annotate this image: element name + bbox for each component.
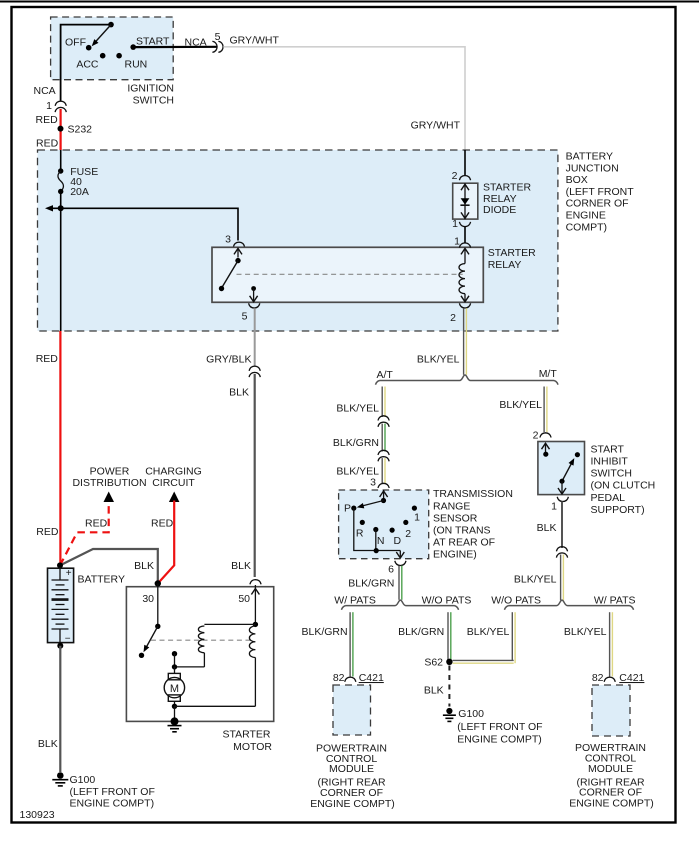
svg-text:BLK/YEL: BLK/YEL [514, 574, 557, 586]
pin 2 (relay) [459, 303, 470, 308]
node fuse output [58, 205, 64, 211]
svg-text:A/T: A/T [377, 369, 394, 381]
wire BLK/YEL from relay pin 2 [463, 308, 465, 375]
svg-text:3: 3 [370, 477, 376, 489]
ignition switch arm [94, 25, 112, 44]
svg-text:GRY/WHT: GRY/WHT [230, 34, 280, 46]
contact R [360, 520, 365, 525]
svg-text:CIRCUIT: CIRCUIT [152, 477, 195, 489]
svg-text:RED: RED [36, 114, 59, 126]
starter motor box [126, 587, 273, 722]
node motor top [172, 664, 177, 669]
svg-text:S62: S62 [424, 657, 443, 669]
pin 1 (diode) [459, 222, 470, 227]
motor case ground [171, 717, 179, 725]
split W/O PATS - W/ PATS [505, 600, 634, 610]
svg-text:POWER: POWER [90, 465, 130, 477]
svg-text:2: 2 [533, 430, 539, 442]
svg-text:MOTOR: MOTOR [233, 741, 272, 753]
svg-text:TRANSMISSION: TRANSMISSION [433, 488, 513, 500]
svg-text:(LEFT FRONT OF: (LEFT FRONT OF [457, 721, 542, 733]
node battery - [57, 643, 63, 649]
node motor bottom [172, 704, 177, 709]
svg-text:20A: 20A [70, 186, 89, 198]
node terminal 30 [155, 580, 161, 586]
svg-text:+: + [66, 568, 72, 579]
wire RED to S232 [59, 109, 61, 150]
svg-text:1: 1 [551, 501, 557, 513]
wire diode to relay [464, 227, 466, 243]
relay coil [464, 248, 466, 263]
starter relay diode [453, 183, 478, 219]
svg-text:BLK: BLK [134, 560, 154, 572]
svg-text:GRY/WHT: GRY/WHT [411, 119, 461, 131]
ground G100 (battery) [57, 772, 64, 779]
svg-text:1: 1 [454, 235, 460, 247]
battery junction box [38, 150, 558, 331]
wire BLK battery to starter motor [60, 549, 158, 584]
svg-text:RED: RED [85, 518, 108, 530]
svg-text:RELAY: RELAY [483, 193, 517, 205]
sensor wiper [383, 490, 385, 500]
svg-text:CORNER OF: CORNER OF [566, 198, 629, 210]
svg-text:ENGINE COMPT): ENGINE COMPT) [457, 733, 542, 745]
wire START to connector [133, 46, 217, 48]
connector 1 (inline, vertical) [55, 101, 66, 106]
svg-text:82: 82 [592, 672, 604, 684]
stub contact [172, 651, 177, 656]
svg-text:ENGINE COMPT): ENGINE COMPT) [310, 798, 395, 810]
svg-text:CHARGING: CHARGING [145, 465, 202, 477]
pin 6 (sensor) [395, 561, 406, 566]
svg-text:S232: S232 [68, 123, 93, 135]
svg-text:D: D [394, 535, 402, 547]
ignition switch box [51, 17, 174, 80]
svg-text:AT REAR OF: AT REAR OF [433, 537, 495, 549]
terminal 50 cap [250, 580, 261, 585]
svg-text:BLK: BLK [424, 685, 444, 697]
start inhibit switch box [538, 442, 585, 495]
svg-text:2: 2 [452, 170, 458, 182]
svg-text:1: 1 [414, 512, 420, 524]
svg-text:BLK/GRN: BLK/GRN [333, 437, 379, 449]
svg-text:OFF: OFF [65, 37, 86, 49]
svg-text:W/ PATS: W/ PATS [334, 594, 376, 606]
motor internal dashed link [151, 639, 253, 641]
relay output stub pin 5 [251, 286, 256, 291]
contact OFF [86, 45, 92, 51]
svg-text:BLK/GRN: BLK/GRN [301, 626, 347, 638]
svg-text:DIODE: DIODE [483, 204, 516, 216]
svg-text:BLK/GRN: BLK/GRN [398, 626, 444, 638]
svg-text:RED: RED [151, 518, 174, 530]
svg-text:G100: G100 [458, 708, 484, 720]
svg-text:2: 2 [450, 312, 456, 324]
svg-text:RUN: RUN [125, 58, 148, 70]
wire to relay pin 3 [51, 208, 238, 240]
svg-text:GRY/BLK: GRY/BLK [206, 353, 251, 365]
svg-text:BATTERY: BATTERY [566, 151, 613, 163]
connector (inline) [249, 366, 260, 371]
svg-text:130923: 130923 [20, 809, 55, 821]
svg-text:ENGINE COMPT): ENGINE COMPT) [569, 798, 654, 810]
svg-text:SENSOR: SENSOR [433, 512, 478, 524]
connector [378, 416, 389, 421]
ignition switch pivot [108, 22, 114, 28]
svg-text:P: P [344, 503, 351, 515]
svg-text:BLK/GRN: BLK/GRN [348, 578, 394, 590]
svg-text:(ON CLUTCH: (ON CLUTCH [591, 480, 656, 492]
splice S62 [446, 659, 452, 665]
contact N [373, 527, 378, 532]
svg-text:START: START [136, 35, 170, 47]
wire gry/wht into diode [464, 150, 466, 176]
svg-text:(LEFT FRONT OF: (LEFT FRONT OF [70, 786, 155, 798]
svg-text:RANGE: RANGE [433, 500, 470, 512]
svg-text:BLK: BLK [229, 386, 249, 398]
svg-text:W/O PATS: W/O PATS [422, 594, 472, 606]
switch arm [562, 461, 573, 482]
svg-text:BLK/YEL: BLK/YEL [336, 403, 379, 415]
svg-text:SWITCH: SWITCH [591, 468, 632, 480]
svg-text:JUNCTION: JUNCTION [566, 162, 619, 174]
svg-text:RED: RED [36, 353, 59, 365]
connector (inline) [556, 547, 567, 552]
svg-text:R: R [356, 528, 364, 540]
wire BLK/YEL (W/ PATS right) [609, 612, 611, 676]
svg-text:ACC: ACC [76, 58, 99, 70]
svg-text:BLK: BLK [231, 560, 251, 572]
svg-text:50: 50 [238, 593, 250, 605]
svg-text:SWITCH: SWITCH [133, 94, 174, 106]
svg-text:M: M [170, 683, 179, 695]
svg-text:W/ PATS: W/ PATS [594, 594, 636, 606]
svg-text:BLK/YEL: BLK/YEL [467, 626, 510, 638]
svg-text:BLK/YEL: BLK/YEL [499, 399, 542, 411]
svg-text:C421: C421 [619, 672, 644, 684]
ground G100 (S62) [446, 708, 452, 714]
svg-text:MODULE: MODULE [588, 763, 633, 775]
arrow to charging circuit (red) [169, 492, 180, 503]
svg-text:N: N [377, 535, 385, 547]
wire BLK dashed to ground [448, 666, 450, 707]
svg-text:30: 30 [142, 593, 154, 605]
wire fuse to junction [60, 192, 62, 332]
svg-text:RED: RED [36, 137, 59, 149]
battery [48, 568, 74, 642]
svg-text:BLK: BLK [38, 738, 58, 750]
transmission range sensor box [339, 490, 429, 559]
wire GRY/WHT from connector 5 [223, 47, 465, 150]
svg-text:6: 6 [388, 564, 394, 576]
contact 1 [412, 506, 417, 511]
svg-text:BLK/YEL: BLK/YEL [417, 353, 460, 365]
svg-text:1: 1 [46, 100, 52, 112]
svg-text:W/O PATS: W/O PATS [491, 594, 541, 606]
contact D [390, 528, 395, 533]
pin 1 (start inhibit) [557, 497, 568, 502]
svg-text:STARTER: STARTER [483, 182, 531, 194]
connector [378, 450, 389, 455]
fuse 40 20A [58, 168, 63, 173]
arrow to power distribution (dashed red) [104, 492, 115, 503]
connector 5 (inline, horizontal) [212, 41, 217, 52]
svg-text:2: 2 [405, 528, 411, 540]
wire BLK/GRN (sensor out) [398, 566, 400, 600]
split A/T - M/T [376, 375, 559, 385]
svg-text:RED: RED [36, 526, 59, 538]
wire BLK/GRN [381, 424, 383, 452]
wire BLK/YEL (M/T) [543, 387, 545, 433]
svg-text:NCA: NCA [34, 85, 56, 97]
wire BLK/YEL to S62 [511, 612, 513, 660]
solenoid coils [254, 585, 256, 624]
svg-text:STARTER: STARTER [488, 247, 536, 259]
svg-text:BLK: BLK [537, 522, 557, 534]
svg-text:STARTER: STARTER [222, 729, 270, 741]
svg-text:C421: C421 [359, 672, 384, 684]
svg-text:BLK/YEL: BLK/YEL [564, 626, 607, 638]
relay contact arm [237, 248, 239, 257]
svg-text:3: 3 [225, 234, 231, 246]
wire BLK/YEL (A/T) [381, 387, 383, 418]
relay internal dashed link [237, 273, 463, 275]
top rule [0, 1, 699, 3]
wire BLK/YEL to split [560, 555, 562, 601]
contact RUN [116, 53, 122, 59]
svg-text:(ON TRANS: (ON TRANS [433, 525, 491, 537]
wire BLK/YEL [381, 458, 383, 483]
svg-text:PEDAL: PEDAL [591, 492, 626, 504]
svg-text:ENGINE: ENGINE [566, 210, 606, 222]
svg-text:MODULE: MODULE [329, 763, 374, 775]
svg-text:RELAY: RELAY [488, 259, 522, 271]
switch contacts [545, 443, 547, 454]
pin 5 [249, 303, 260, 308]
split W/ PATS - W/O PATS [342, 600, 459, 610]
wire ignition feed [61, 25, 111, 102]
svg-text:ENGINE COMPT): ENGINE COMPT) [70, 797, 155, 809]
powertrain control module (left) [333, 685, 371, 735]
svg-text:M/T: M/T [539, 368, 558, 380]
splice S232 [58, 126, 64, 132]
svg-text:BOX: BOX [566, 174, 588, 186]
wire BLK/GRN (W/ PATS) [349, 612, 351, 676]
wire BLK battery to G100 [59, 646, 61, 772]
motor M [174, 667, 176, 674]
node battery + [57, 562, 63, 568]
svg-text:82: 82 [333, 672, 345, 684]
wire BLK/GRN (W/O PATS) [447, 612, 449, 660]
svg-text:5: 5 [215, 31, 221, 43]
svg-text:NCA: NCA [185, 37, 207, 49]
contact 2 [403, 520, 408, 525]
svg-text:1: 1 [452, 218, 458, 230]
wire BLK [561, 502, 563, 549]
wire BLK to starter motor 50 [254, 374, 256, 577]
sensor internal wiring [354, 508, 401, 550]
svg-text:BATTERY: BATTERY [78, 574, 125, 586]
svg-text:START: START [591, 443, 625, 455]
wire into fuse [60, 150, 62, 171]
contact P [351, 506, 356, 511]
starter relay box [212, 247, 483, 302]
svg-text:SUPPORT): SUPPORT) [591, 504, 645, 516]
svg-text:INHIBIT: INHIBIT [591, 456, 629, 468]
svg-text:−: − [65, 633, 71, 644]
contact ACC [100, 53, 106, 59]
svg-text:IGNITION: IGNITION [127, 82, 174, 94]
svg-text:DISTRIBUTION: DISTRIBUTION [72, 477, 146, 489]
contact START [130, 44, 136, 50]
wire RED junction box to battery [59, 331, 61, 565]
svg-text:COMPT): COMPT) [566, 221, 607, 233]
svg-text:G100: G100 [70, 774, 96, 786]
svg-text:(LEFT FRONT: (LEFT FRONT [566, 186, 635, 198]
powertrain control module (right) [592, 685, 630, 736]
motor solenoid contact [157, 584, 159, 627]
wire GRY/BLK from relay pin 5 [254, 308, 256, 366]
svg-text:ENGINE): ENGINE) [433, 549, 477, 561]
svg-text:5: 5 [242, 311, 248, 323]
battery plates [52, 579, 69, 581]
